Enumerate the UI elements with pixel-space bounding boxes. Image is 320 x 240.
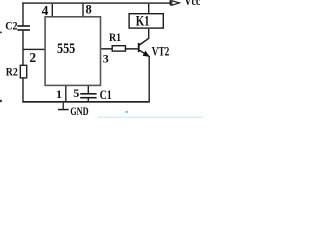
svg-text:555: 555: [57, 40, 76, 56]
svg-text:1: 1: [56, 87, 62, 101]
svg-text:C2: C2: [5, 20, 17, 33]
svg-text:K1: K1: [136, 12, 150, 29]
svg-text:GND: GND: [70, 106, 88, 118]
svg-text:3: 3: [103, 52, 109, 66]
svg-text:VT2: VT2: [152, 45, 170, 59]
svg-text:2: 2: [29, 50, 36, 65]
svg-text:5: 5: [73, 86, 79, 100]
svg-text:4: 4: [42, 3, 49, 18]
svg-text:R2: R2: [6, 66, 18, 79]
svg-text:8: 8: [86, 2, 92, 16]
svg-text:R1: R1: [109, 31, 121, 44]
svg-text:C1: C1: [100, 89, 113, 102]
svg-text:Vcc: Vcc: [184, 0, 200, 8]
